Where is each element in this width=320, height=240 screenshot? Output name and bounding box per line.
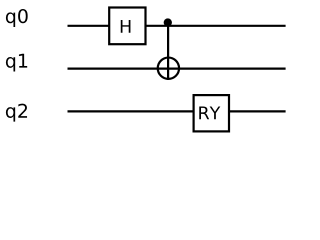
CNOT control dot on q0 <box>164 18 172 26</box>
wire q2 <box>68 110 286 112</box>
wire q0 <box>68 25 286 27</box>
gate RY label <box>199 107 220 120</box>
node q1 label <box>6 54 27 72</box>
wire q1 <box>68 67 286 69</box>
gate H label <box>121 20 131 33</box>
wire CNOT vertical q0-q1 <box>167 23 169 80</box>
node q2 label <box>6 104 27 122</box>
gate RY box <box>194 95 229 131</box>
node q0 label <box>6 9 28 27</box>
gate H box <box>109 8 145 45</box>
CNOT target circle on q1 <box>158 58 179 79</box>
